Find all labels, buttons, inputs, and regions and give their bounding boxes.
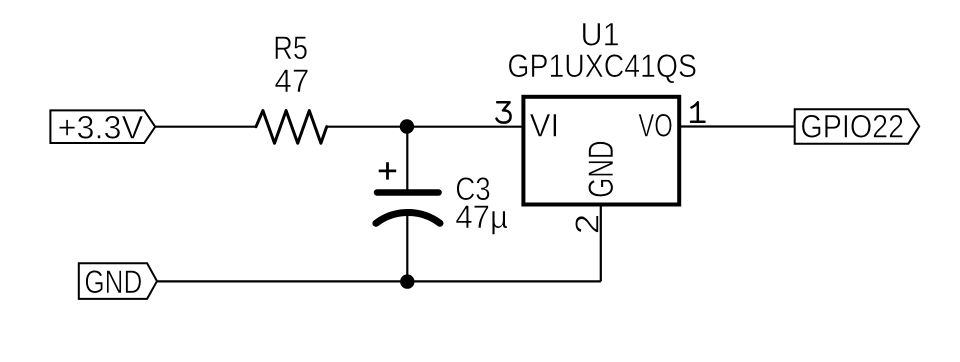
svg-text:47: 47 bbox=[274, 63, 309, 99]
svg-text:VO: VO bbox=[638, 108, 672, 144]
svg-text:GND: GND bbox=[84, 264, 142, 300]
svg-text:+3.3V: +3.3V bbox=[58, 110, 144, 146]
svg-text:GND: GND bbox=[582, 140, 621, 198]
svg-text:2: 2 bbox=[568, 214, 605, 235]
svg-text:GP1UXC41QS: GP1UXC41QS bbox=[507, 48, 697, 84]
svg-text:U1: U1 bbox=[581, 16, 620, 52]
svg-text:R5: R5 bbox=[273, 30, 308, 66]
svg-text:VI: VI bbox=[530, 108, 560, 144]
svg-text:GPIO22: GPIO22 bbox=[800, 109, 904, 145]
svg-text:47µ: 47µ bbox=[455, 199, 508, 235]
